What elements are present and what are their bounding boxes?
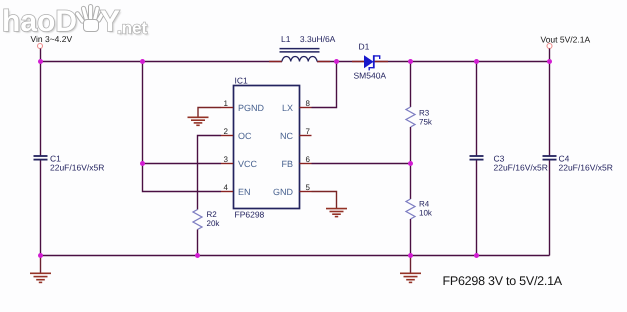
svg-text:6: 6 — [306, 155, 311, 164]
pin 7 stub — [300, 135, 312, 137]
svg-text:22uF/16V/x5R: 22uF/16V/x5R — [494, 163, 548, 173]
svg-text:R2: R2 — [207, 210, 218, 219]
wire top rail D1 to Vout — [374, 61, 550, 63]
svg-text:SM540A: SM540A — [354, 70, 387, 80]
svg-text:FP6298: FP6298 — [235, 209, 265, 219]
junction bottom rail at C3 — [474, 253, 479, 258]
resistor R3 — [406, 107, 415, 127]
svg-text:FB: FB — [281, 159, 293, 169]
svg-text:FP6298 3V to 5V/2.1A: FP6298 3V to 5V/2.1A — [443, 274, 563, 288]
svg-text:OC: OC — [238, 131, 252, 141]
diode D1 — [364, 55, 380, 70]
junction top rail at VCC branch — [140, 59, 145, 64]
junction top rail at C3 — [474, 59, 479, 64]
svg-text:L1 3.3uH/6A: L1 3.3uH/6A — [281, 34, 336, 44]
junction top rail at Vin corner — [38, 59, 43, 64]
svg-text:10k: 10k — [419, 209, 433, 218]
ground GND pin — [326, 209, 347, 217]
junction bottom rail at R4 — [408, 253, 413, 258]
svg-text:Vout 5V/2.1A: Vout 5V/2.1A — [541, 35, 591, 45]
svg-text:22uF/16V/x5R: 22uF/16V/x5R — [559, 163, 613, 173]
svg-text:NC: NC — [280, 131, 293, 141]
resistor R2 — [193, 210, 202, 230]
ground bottom-left — [30, 256, 51, 283]
junction VCC node — [140, 161, 145, 166]
svg-text:20k: 20k — [207, 219, 221, 228]
wire top rail L1 to D1 — [317, 61, 364, 63]
wire PGND to ground — [198, 108, 221, 118]
inductor L1 pins — [269, 61, 330, 63]
junction FB node — [408, 161, 413, 166]
svg-text:VCC: VCC — [238, 159, 258, 169]
pin 1 stub — [221, 107, 233, 109]
wire R3 to FB node — [410, 127, 412, 199]
svg-text:R3: R3 — [419, 109, 430, 118]
wire FB to divider — [312, 163, 411, 165]
IC U1 box — [234, 86, 300, 209]
svg-text:LX: LX — [282, 103, 293, 113]
junction bottom rail left corner — [38, 253, 43, 258]
inductor L1 — [280, 49, 320, 62]
wire top rail Vin to L1 — [41, 61, 283, 63]
svg-text:PGND: PGND — [238, 103, 265, 113]
pin 4 stub — [221, 191, 233, 193]
wire Vout stub — [549, 49, 551, 62]
pin 8 stub — [300, 107, 312, 109]
wire C3 branch — [476, 62, 478, 256]
junction top rail at LX — [334, 59, 339, 64]
pin 2 stub — [221, 135, 233, 137]
svg-text:2: 2 — [224, 127, 229, 136]
svg-text:7: 7 — [306, 127, 311, 136]
capacitor C1 — [34, 156, 48, 160]
ground PGND — [188, 117, 209, 125]
junction bottom rail at R2 — [195, 253, 200, 258]
ground bottom-center — [400, 256, 421, 283]
junction top rail at Vout corner — [547, 59, 552, 64]
capacitor C4 — [543, 156, 557, 160]
svg-text:IC1: IC1 — [235, 75, 249, 85]
svg-text:EN: EN — [238, 187, 251, 197]
diode D1 pins — [352, 61, 388, 63]
svg-text:.net: .net — [117, 19, 148, 38]
svg-text:8: 8 — [306, 99, 311, 108]
svg-text:22uF/16V/x5R: 22uF/16V/x5R — [50, 163, 104, 173]
capacitor C3 — [470, 156, 484, 160]
wire VCC EN branch — [143, 62, 222, 192]
svg-text:GND: GND — [273, 187, 294, 197]
junction top rail at R3 — [408, 59, 413, 64]
svg-text:5: 5 — [306, 183, 311, 192]
wire R2 to bottom rail — [197, 230, 199, 256]
svg-text:1: 1 — [224, 99, 229, 108]
svg-text:D1: D1 — [359, 42, 370, 52]
wire top rail to R3 — [410, 62, 412, 108]
wire R4 to bottom rail — [410, 219, 412, 256]
terminal Vin — [38, 44, 43, 49]
wire LX to top rail — [312, 62, 337, 108]
wire Vin stub — [40, 49, 42, 62]
wire bottom rail — [41, 255, 550, 257]
wire GND pin to ground — [312, 192, 337, 209]
pin 6 stub — [300, 163, 312, 165]
svg-text:3: 3 — [224, 155, 229, 164]
svg-text:Vin 3~4.2V: Vin 3~4.2V — [31, 34, 73, 44]
wire left branch C1 — [40, 62, 42, 256]
svg-text:4: 4 — [224, 183, 229, 192]
wire OC down to R2 — [198, 136, 222, 210]
svg-text:R4: R4 — [419, 200, 430, 209]
resistor R4 — [406, 199, 415, 219]
wire C4 branch — [549, 62, 551, 256]
terminal Vout — [547, 44, 552, 49]
logo haoDIY.net — [2, 5, 149, 40]
pin 5 stub — [300, 191, 312, 193]
svg-text:75k: 75k — [419, 118, 433, 127]
pin 3 stub — [221, 163, 233, 165]
